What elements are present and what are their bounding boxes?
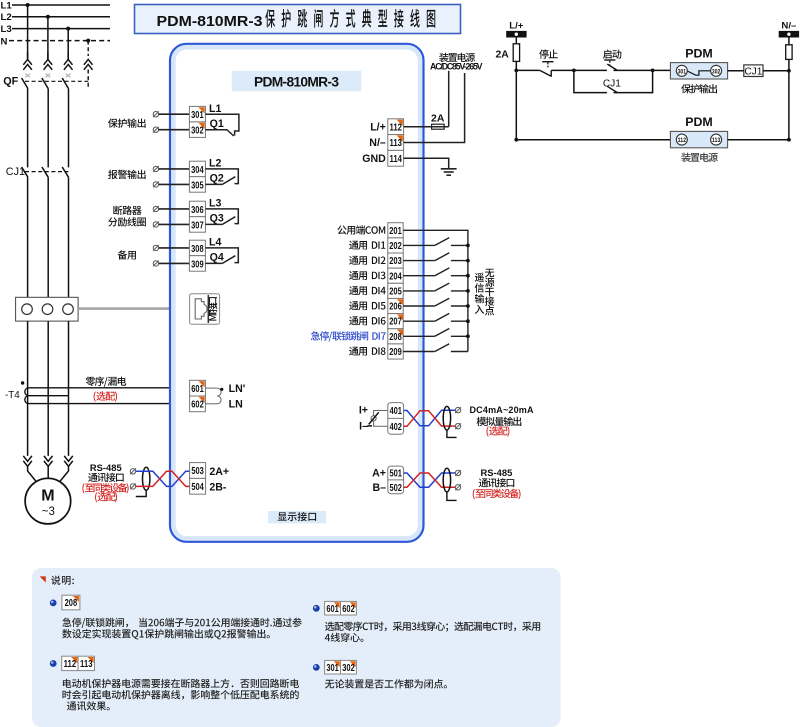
svg-text:112: 112 (678, 137, 687, 144)
DI2 dry contact (403, 253, 470, 263)
wire supply branch to PDM power block (516, 139, 670, 141)
wire screw to terminal 309 (159, 262, 190, 264)
note box 112 (62, 656, 78, 670)
svg-text:302: 302 (191, 126, 204, 137)
text label: notes heading 说明: (51, 576, 74, 585)
relay contact Q4 (NO) wiring (205, 248, 238, 264)
svg-text:205: 205 (389, 286, 402, 297)
drawout chevrons to motor phase C (64, 456, 73, 466)
svg-text:DC4mA~20mA: DC4mA~20mA (470, 405, 535, 415)
svg-text:304: 304 (191, 165, 204, 176)
terminal 301 (189, 106, 205, 122)
text label: label 通用 DI3 (349, 271, 385, 280)
wire start to right node (614, 69, 653, 71)
note box 113 (78, 656, 94, 670)
svg-text:301: 301 (678, 68, 687, 75)
shield drain rs485 (447, 492, 457, 501)
text label: group label 备用 (118, 250, 136, 259)
twisted pair rs485 red (404, 473, 456, 487)
DI bus vertical (467, 245, 469, 351)
svg-text:208: 208 (389, 332, 402, 343)
text label: label 通讯接口 left (88, 473, 124, 482)
text label: note4 line1 (325, 679, 447, 688)
terminal screw circle 306 (153, 206, 159, 212)
wire PDM power to N rail (728, 139, 789, 141)
node supply branch corner (514, 138, 518, 142)
terminal screw circle analog - (455, 423, 461, 429)
svg-text:N/–: N/– (781, 21, 797, 32)
text label: label 通用 DI8 (349, 347, 385, 356)
MT interface connector (190, 294, 220, 324)
text label: label 通用 DI6 (349, 316, 385, 325)
node junction L/+ rail (514, 69, 518, 73)
svg-text:CJ1: CJ1 (603, 78, 621, 89)
text label: label 装置电源 top (439, 53, 475, 62)
svg-text:QF: QF (3, 76, 18, 88)
note box 602 (341, 601, 357, 615)
terminal 202 (388, 238, 403, 253)
svg-text:306: 306 (191, 205, 204, 216)
svg-text:L/+: L/+ (370, 121, 386, 133)
node branch junction left (572, 69, 576, 73)
svg-text:Q1: Q1 (210, 118, 224, 130)
node branch junction right (651, 69, 655, 73)
wire COM 201 to bus (403, 230, 468, 245)
svg-text:601: 601 (326, 604, 339, 615)
wire stop to branch node (551, 69, 574, 71)
text label (vertical): label 无源干接点 (485, 269, 495, 316)
svg-text:2B-: 2B- (209, 482, 227, 494)
wire screw to terminal 308 (159, 247, 190, 249)
terminal 206 (388, 298, 403, 313)
terminal screw circle analog + (455, 407, 461, 413)
fuse 2A control (513, 44, 519, 62)
text label (vertical): label 遥信输入 (475, 273, 485, 314)
shield drain analog (447, 430, 457, 437)
svg-text:L3: L3 (209, 198, 221, 210)
svg-text:402: 402 (389, 422, 402, 433)
twisted pair analog blue (404, 410, 456, 426)
note box 601 (325, 601, 341, 615)
wire screw to terminal 302 (159, 129, 190, 131)
svg-text:204: 204 (389, 271, 402, 282)
svg-text:I–: I– (359, 421, 368, 433)
wire phase B CT to T4 (47, 321, 49, 456)
start pushbutton 启动 (NO) (604, 60, 617, 70)
terminal 302 (189, 122, 205, 137)
svg-text:504: 504 (191, 482, 204, 493)
relay contact Q3 (NO) wiring (205, 209, 238, 225)
svg-text:-T4: -T4 (5, 390, 20, 401)
svg-text:307: 307 (191, 220, 204, 231)
svg-text:305: 305 (191, 180, 204, 191)
wire T4 secondary lower lead to terminal 602 (28, 403, 189, 405)
terminal screw circle 308 (153, 245, 159, 251)
node CJ1 to N junction (787, 69, 791, 73)
text label: label 启动 (603, 49, 621, 58)
text label: label 装置电源 right (681, 153, 717, 162)
terminal 305 (189, 177, 205, 193)
terminal 308 (189, 240, 205, 256)
wire T4 secondary upper lead to terminal 601 (28, 387, 189, 389)
wire phase C CT to T4 (68, 321, 70, 456)
svg-text:202: 202 (389, 241, 402, 252)
svg-text:CJ1: CJ1 (744, 67, 762, 78)
svg-text:B–: B– (372, 482, 386, 494)
note box 301 (325, 660, 341, 674)
wire L3 horizontal bus (12, 28, 110, 30)
PDM device power block 112-113 (670, 131, 727, 147)
drawout chevrons neutral (84, 59, 93, 69)
wire phase B drop from L2 (47, 17, 49, 60)
DI5 dry contact (403, 298, 470, 308)
svg-text:PDM-810MR-3: PDM-810MR-3 (157, 14, 263, 30)
svg-text:L1: L1 (209, 103, 221, 115)
contactor CJ1 blade pole A (22, 167, 28, 177)
terminal 114 (388, 150, 404, 166)
contactor CJ1 blade pole B (42, 167, 48, 177)
terminal screw circle 302 (153, 127, 159, 133)
text label: label (选配) analog (486, 426, 509, 436)
terminal screw circle 305 (153, 182, 159, 188)
note bullet sphere 2 (50, 660, 57, 667)
text label: note3 line1 (325, 621, 540, 631)
text label: group label 断路器 (113, 206, 141, 215)
svg-text:209: 209 (389, 347, 402, 358)
svg-text:302: 302 (342, 663, 355, 674)
svg-text:203: 203 (389, 256, 402, 267)
terminal 112 (388, 119, 404, 135)
wire phase A CT to T4 (27, 321, 29, 456)
supply bar L/+ (506, 31, 526, 38)
parallel branch CJ1 holding contact (574, 70, 653, 92)
terminal block 501/502 (388, 466, 404, 494)
terminal screw circle 504 external (130, 484, 136, 490)
text label: label 显示接口 (278, 512, 316, 521)
CT block (three-phase current transformer) (16, 297, 79, 321)
wire PDM to CJ1 coil (728, 70, 744, 72)
internal coil 601-602 (205, 388, 221, 404)
terminal 504 (190, 478, 206, 494)
breaker QF cross mark pole C (66, 74, 71, 77)
wire phase A CJ1 to CT block (27, 177, 29, 297)
text label: label 公用端COM (337, 225, 385, 234)
motor lead phase C (59, 466, 69, 482)
wire phase A drop from L1 (27, 5, 29, 60)
fuse 2A (device supply) (432, 124, 449, 129)
supply bar N/- (779, 31, 799, 38)
svg-text:602: 602 (342, 604, 355, 615)
svg-text:201: 201 (389, 226, 402, 237)
terminal screw circle 301 (153, 111, 159, 117)
svg-text:206: 206 (389, 302, 402, 313)
text label: label (至同类设备) left (82, 483, 128, 493)
DI7 dry contact (403, 329, 470, 339)
zero-sequence CT T4 polarity dot (21, 381, 24, 384)
svg-text:L/+: L/+ (509, 21, 524, 32)
drawout chevrons phase B (44, 52, 53, 70)
terminal 201 (388, 223, 403, 238)
motor lead phase A (28, 466, 37, 482)
transducer leads 401/402 (374, 411, 388, 427)
text label: label 零序/漏电 (86, 377, 127, 387)
wire 112 to fuse (404, 126, 432, 128)
svg-text:2A: 2A (431, 114, 445, 125)
text label: label 通用 DI4 (349, 286, 386, 295)
text label: group label 报警输出 (108, 170, 146, 179)
text label: label 急停/联锁跳闸 DI7 (311, 331, 386, 341)
svg-text:301: 301 (326, 663, 339, 674)
note bullet sphere 1 (50, 600, 57, 607)
text label: label 模拟量输出 (477, 417, 522, 426)
terminal 207 (388, 314, 403, 329)
twisted pair analog red (404, 411, 456, 427)
wire L2 horizontal bus (12, 16, 110, 18)
node N tap junction (86, 39, 90, 43)
terminal 307 (189, 217, 205, 233)
main unit box PDM-810MR-3 (170, 44, 424, 542)
twisted pair wire A (blue) to 503 (136, 471, 190, 486)
svg-text:L3: L3 (1, 24, 12, 35)
main unit header PDM-810MR-3 (232, 71, 361, 91)
motor M~3 (25, 478, 71, 524)
motor lead phase B (47, 466, 49, 478)
shield drain wire (136, 490, 146, 496)
svg-text:113: 113 (389, 138, 402, 149)
terminal 203 (388, 253, 403, 268)
title block PDM-810MR-3保护跳闸方式典型接线图 (135, 5, 461, 34)
terminal 602 (190, 396, 206, 412)
terminal 205 (388, 283, 403, 298)
text label: label 保护输出 right (681, 84, 717, 93)
wire N/- down (788, 38, 790, 140)
DI1 dry contact (403, 238, 470, 248)
svg-text:RS-485: RS-485 (90, 462, 122, 473)
svg-text:L2: L2 (209, 158, 221, 170)
text label: group label 分励线圈 (108, 217, 146, 226)
wire phase B QF to CJ1 (47, 89, 49, 168)
relay contact Q1 (NC) wiring (205, 114, 239, 136)
svg-text:PDM: PDM (685, 115, 713, 129)
text label: label (至同类设备) right (473, 489, 521, 499)
node L2 tap junction (46, 15, 50, 19)
terminal screw circle 304 (153, 166, 159, 172)
text label: note2 line2 (62, 690, 298, 700)
text label: label 停止 (539, 49, 557, 58)
svg-text:LN': LN' (229, 383, 246, 395)
wire phase B CJ1 to CT block (47, 177, 49, 297)
wire N horizontal bus (dashed) (9, 40, 110, 42)
terminal 304 (189, 161, 205, 177)
PDM protection output block 301-302 (670, 63, 727, 79)
terminal block 401/402 (388, 403, 404, 435)
node LN' polarity dot (220, 388, 223, 391)
text label: note2 line3 (67, 701, 110, 710)
terminal screw circle 307 (153, 222, 159, 228)
DI3 dry contact (403, 268, 470, 278)
wire phase C CJ1 to CT block (68, 177, 70, 297)
svg-text:L2: L2 (1, 12, 12, 23)
wire phase C drop from L3 (67, 29, 69, 60)
wire L1 horizontal bus (12, 4, 110, 6)
wire neutral drop from N (dashed) (87, 41, 89, 56)
text label: label MT接口 (208, 297, 217, 321)
fuse N rail (786, 45, 792, 60)
zero-sequence CT T4 winding (25, 388, 69, 404)
DI8 dry contact (403, 344, 468, 352)
breaker QF cross mark pole A (25, 74, 30, 77)
wire screw to terminal 301 (159, 113, 190, 115)
svg-text:M: M (41, 487, 54, 504)
text label: label 通用 DI1 (349, 241, 385, 250)
wire node to PDM protection output (653, 69, 671, 71)
svg-text:N/–: N/– (369, 137, 386, 149)
terminal 601 (190, 380, 206, 396)
terminal 209 (388, 344, 403, 359)
twisted pair rs485 blue (404, 473, 456, 487)
shield ellipse RS-485 cable (143, 467, 150, 490)
svg-text:301: 301 (191, 110, 204, 121)
relay contact Q2 (NO) wiring (205, 169, 238, 185)
wire fuse up to supply label (448, 71, 450, 127)
node L1 tap junction (26, 3, 30, 7)
svg-text:Q4: Q4 (210, 252, 224, 264)
notes panel background (32, 568, 561, 727)
DI6 dry contact (403, 313, 470, 323)
wire branch to start button (574, 69, 607, 71)
breaker QF blade pole B (42, 78, 48, 89)
wire 114 to ground (404, 158, 449, 168)
svg-text:113: 113 (80, 659, 93, 670)
svg-text:401: 401 (389, 406, 402, 417)
svg-text:2A: 2A (496, 49, 510, 60)
svg-text:~3: ~3 (42, 506, 55, 518)
drawout chevrons to motor phase A (23, 456, 32, 466)
drawout chevrons to motor phase B (44, 456, 53, 466)
text label: label (选配) under 零序 (94, 391, 117, 401)
wire screw to terminal 305 (159, 183, 190, 185)
svg-text:602: 602 (191, 399, 204, 410)
contactor CJ1 blade pole C (62, 167, 68, 177)
svg-text:308: 308 (191, 244, 204, 255)
svg-text:RS-485: RS-485 (481, 467, 513, 478)
wire L/+ rail down to supply branch (515, 70, 517, 139)
text label: group label 保护输出 (108, 118, 146, 127)
svg-text:GND: GND (362, 153, 386, 165)
wire screw to terminal 306 (159, 208, 190, 210)
wire screw to terminal 307 (159, 223, 190, 225)
breaker QF blade pole A (22, 78, 28, 89)
note box 302 (341, 660, 357, 674)
drawout chevrons phase A (23, 52, 32, 70)
text label: note1 line1 (62, 618, 302, 628)
text label: title CJK part (265, 9, 435, 28)
breaker QF linkage (dashed) (25, 80, 88, 82)
svg-text:Q3: Q3 (210, 213, 224, 225)
svg-text:A+: A+ (372, 468, 386, 480)
stop pushbutton 停止 (NC) (540, 62, 554, 77)
contactor coil CJ1 (744, 65, 763, 78)
text label: note2 line1 (63, 679, 299, 688)
svg-text:302: 302 (712, 68, 721, 75)
terminal 204 (388, 268, 403, 283)
drawout chevrons phase C (64, 52, 73, 70)
svg-text:N: N (1, 36, 8, 47)
breaker QF cross mark pole B (46, 74, 51, 77)
text label: note3 line2 (325, 633, 364, 642)
wire to stop button (516, 69, 540, 71)
text label: label (选配) left rs485 (95, 492, 117, 502)
svg-text:I+: I+ (359, 405, 368, 417)
wire L/+ down (515, 38, 517, 71)
text label: note1 line2 (62, 629, 270, 639)
text label: label 通用 DI5 (349, 301, 385, 310)
shield ellipse analog cable (443, 406, 450, 430)
terminal 208 (388, 329, 403, 344)
svg-text:L4: L4 (209, 237, 221, 249)
cable CT block to MT port (thick gray) (78, 307, 190, 310)
svg-text:113: 113 (712, 137, 721, 144)
contactor CJ1 linkage (dashed) (25, 171, 69, 173)
terminal 503 (190, 463, 206, 479)
node L3 tap junction (66, 27, 70, 31)
wire CJ1 coil to N rail (763, 70, 789, 72)
text label: label 通讯接口 right (479, 478, 515, 487)
svg-text:2A+: 2A+ (209, 466, 229, 478)
notes heading marker (40, 576, 46, 582)
svg-text:502: 502 (389, 483, 402, 494)
terminal screw circle 503 external (130, 468, 136, 474)
note bullet sphere 4 (313, 664, 320, 671)
svg-text:501: 501 (389, 469, 402, 480)
svg-text:503: 503 (191, 466, 204, 477)
ground symbol (441, 169, 457, 175)
terminal 306 (189, 201, 205, 217)
svg-text:PDM: PDM (685, 46, 713, 60)
note box 208 (62, 595, 80, 610)
svg-text:L1: L1 (1, 0, 13, 11)
svg-text:112: 112 (389, 122, 402, 133)
svg-text:AC/DC85V-265V: AC/DC85V-265V (430, 61, 483, 71)
svg-text:114: 114 (389, 154, 402, 165)
svg-text:112: 112 (64, 659, 77, 670)
terminal 113 (388, 135, 404, 151)
svg-text:208: 208 (65, 598, 78, 609)
svg-text:309: 309 (191, 259, 204, 270)
wire 113 to supply label (404, 73, 465, 143)
note bullet sphere 3 (313, 605, 320, 612)
DI4 dry contact (403, 283, 470, 293)
svg-text:601: 601 (191, 384, 204, 395)
wire screw to terminal 304 (159, 168, 190, 170)
wire phase A QF to CJ1 (27, 89, 29, 168)
svg-text:PDM-810MR-3: PDM-810MR-3 (254, 74, 339, 89)
svg-text:Q2: Q2 (210, 173, 224, 185)
terminal screw circle rs485 B (455, 484, 461, 490)
text label: label 通用 DI2 (349, 256, 385, 265)
shield ellipse rs485 cable (443, 468, 450, 492)
wire phase C QF to CJ1 (68, 89, 70, 168)
svg-text:207: 207 (389, 317, 402, 328)
transducer arrow symbol (371, 416, 376, 421)
breaker QF blade pole C (62, 78, 68, 89)
node PDM power to N junction (787, 138, 791, 142)
terminal 309 (189, 256, 205, 272)
display port label box 显示接口 (268, 511, 326, 523)
twisted pair wire B (red) to 504 (136, 471, 190, 486)
terminal screw circle rs485 A (455, 470, 461, 476)
terminal screw circle 309 (153, 261, 159, 267)
